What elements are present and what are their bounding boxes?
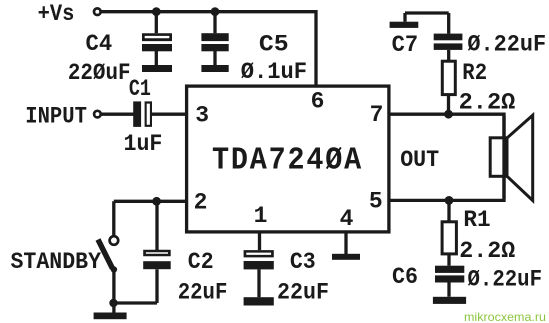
svg-text:R2: R2 [462, 60, 487, 86]
svg-text:+Vs: +Vs [38, 1, 75, 27]
svg-text:6: 6 [311, 89, 325, 115]
svg-text:C4: C4 [86, 31, 113, 57]
svg-text:mikrocxema.ru: mikrocxema.ru [464, 310, 546, 323]
svg-text:5: 5 [369, 189, 383, 215]
svg-text:3: 3 [195, 102, 209, 128]
svg-text:Ø.22uF: Ø.22uF [467, 31, 546, 57]
svg-text:OUT: OUT [400, 147, 439, 173]
svg-text:2.2Ω: 2.2Ω [459, 89, 516, 115]
svg-text:2.2Ω: 2.2Ω [459, 238, 515, 264]
svg-text:4: 4 [340, 206, 354, 232]
svg-text:INPUT: INPUT [25, 103, 87, 129]
svg-text:Ø.22uF: Ø.22uF [468, 267, 543, 293]
svg-text:C6: C6 [392, 264, 418, 290]
svg-text:R1: R1 [463, 207, 490, 233]
svg-text:TDA724ØA: TDA724ØA [212, 144, 363, 179]
svg-text:STANDBY: STANDBY [11, 249, 102, 275]
svg-text:C3: C3 [290, 249, 316, 275]
svg-text:C1: C1 [129, 76, 151, 102]
svg-text:22ØuF: 22ØuF [68, 60, 131, 86]
svg-text:1: 1 [254, 203, 268, 229]
svg-text:22uF: 22uF [178, 279, 228, 305]
svg-text:1uF: 1uF [124, 131, 163, 157]
svg-text:7: 7 [370, 102, 384, 128]
svg-text:2: 2 [194, 190, 208, 216]
svg-text:22uF: 22uF [277, 279, 329, 305]
svg-text:C2: C2 [188, 249, 214, 275]
svg-text:C7: C7 [392, 32, 419, 58]
svg-text:C5: C5 [259, 31, 289, 57]
svg-text:Ø.1uF: Ø.1uF [241, 59, 307, 85]
